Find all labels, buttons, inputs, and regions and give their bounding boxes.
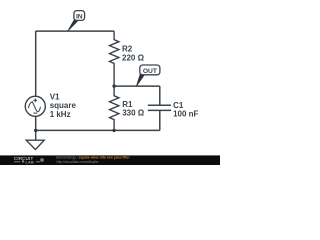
svg-text:330 Ω: 330 Ω [122, 109, 145, 118]
source V1 [25, 96, 45, 116]
flag OUT [137, 65, 160, 86]
svg-text:100 nF: 100 nF [173, 110, 198, 119]
svg-text:LAB: LAB [26, 160, 34, 164]
resistor R2 [110, 31, 119, 86]
wire V1 bottom to ground rail [35, 116, 37, 130]
svg-text:IN: IN [76, 14, 83, 21]
junction node R1 bottom [112, 129, 115, 132]
wire bottom rail [36, 129, 160, 131]
svg-text:http://circuitlab.com/c6hq6w: http://circuitlab.com/c6hq6w [57, 160, 99, 164]
svg-text:OUT: OUT [143, 68, 158, 75]
svg-text:C1: C1 [173, 101, 184, 110]
flag IN [68, 11, 85, 31]
svg-text:1 kHz: 1 kHz [50, 110, 71, 119]
ground [26, 130, 44, 149]
resistor R1 [110, 86, 119, 130]
junction node R2/R1/OUT wire [112, 84, 115, 87]
wire top rail (node IN) [36, 30, 114, 32]
capacitor C1 [148, 105, 171, 110]
wire C1 branch [159, 86, 161, 130]
footer bar [0, 155, 220, 165]
wire left branch down to V1 [35, 31, 37, 96]
junction node V1/ground [34, 129, 37, 132]
svg-text:R1: R1 [122, 100, 133, 109]
wire middle rail (node OUT) [114, 85, 160, 87]
svg-text:square: square [50, 101, 77, 110]
svg-text:220 Ω: 220 Ω [122, 53, 145, 62]
svg-text:R2: R2 [122, 45, 133, 54]
